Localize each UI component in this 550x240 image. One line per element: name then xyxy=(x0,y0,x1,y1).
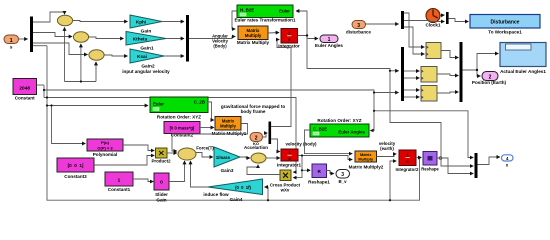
svg-text:input angular velocity: input angular velocity xyxy=(122,69,170,74)
sum E1 xyxy=(57,15,72,25)
svg-text:3: 3 xyxy=(341,172,344,178)
svg-text:Clock1: Clock1 xyxy=(425,23,441,28)
sum1 Force xyxy=(178,148,196,160)
mux bar2 xyxy=(186,15,189,62)
svg-text:Polynomial: Polynomial xyxy=(93,152,118,157)
wire polynomial to product2 in1 xyxy=(123,145,154,151)
svg-text:1/mass: 1/mass xyxy=(216,155,231,160)
wire Y1 to muxR xyxy=(441,51,458,58)
demux bar1 xyxy=(30,17,33,53)
constant 2048 xyxy=(13,79,37,101)
wire Y3 to muxR xyxy=(437,92,458,93)
wire demux 4th output down to left column xyxy=(33,45,47,47)
wire Ksai to mux xyxy=(164,55,184,57)
wire E2 to Ktheta xyxy=(89,37,124,39)
svg-text:Slider: Slider xyxy=(155,192,168,197)
junction dots left column xyxy=(43,89,45,91)
wire disturbance to demux barA xyxy=(366,23,399,25)
svg-text:Multiply: Multiply xyxy=(245,33,262,38)
block Polynomial xyxy=(87,139,123,157)
wire muxC to To Workspace1 xyxy=(449,19,469,22)
wire euler feedback up to green1 right input xyxy=(296,11,307,36)
arrow into green3 right port xyxy=(370,129,374,133)
wire crossproduct out to sum2 bottom xyxy=(247,165,280,175)
svg-text:Integrator1: Integrator1 xyxy=(277,163,301,168)
inport 3 disturbance xyxy=(346,21,371,35)
svg-text:Euler: Euler xyxy=(279,9,290,14)
block Reshape1 xyxy=(308,164,330,185)
svg-text:C_2B: C_2B xyxy=(194,100,205,105)
svg-text:Matrix Multiply: Matrix Multiply xyxy=(237,40,270,45)
svg-text:Constant1: Constant1 xyxy=(108,187,131,192)
slider gain xyxy=(154,173,169,203)
sum E3 xyxy=(89,50,104,60)
wire green2 input feed xyxy=(47,105,148,107)
wire integrator lower input feedback xyxy=(271,40,291,127)
svg-text:Position (Earth): Position (Earth) xyxy=(472,80,507,85)
svg-text:3: 3 xyxy=(357,23,360,29)
sum E2 xyxy=(73,32,88,42)
svg-text:Rotation Order: XYZ: Rotation Order: XYZ xyxy=(157,115,201,120)
wire junction down to outport 2 xyxy=(477,70,480,76)
wire demux to sum E3 xyxy=(33,43,87,55)
svg-text:O(P) = 3: O(P) = 3 xyxy=(97,145,113,150)
wire constant3 to product2 in2 xyxy=(94,156,154,166)
wire inport2 to barD xyxy=(263,133,268,137)
wire left column V1 xyxy=(43,85,45,98)
subsystem Euler rates Transformation1 xyxy=(234,5,295,23)
clock Clock1 xyxy=(425,9,441,28)
junction scope wire xyxy=(476,69,478,71)
svg-text:Euler: Euler xyxy=(153,102,164,107)
block Integrator2 xyxy=(396,150,419,172)
demux barA xyxy=(401,11,404,29)
block Matrix Multiply1 xyxy=(212,117,247,137)
wire bottom loop riser to gain4 input xyxy=(265,187,268,200)
subsystem Rotation Order XYZ right xyxy=(310,118,369,137)
svg-text:Integrator2: Integrator2 xyxy=(396,167,419,172)
svg-text:(0 0 1f): (0 0 1f) xyxy=(235,185,251,190)
wire matrix multiply to integrator xyxy=(268,32,279,35)
svg-text:Product2: Product2 xyxy=(151,159,171,164)
outport 3 B_v xyxy=(336,170,350,185)
wire junction to muxF riser H110.8 xyxy=(374,111,473,158)
mux barR xyxy=(460,42,463,102)
svg-text:Force(T): Force(T) xyxy=(196,146,214,151)
wire polynomial input feed xyxy=(52,106,86,144)
wire green1 H_B2E out to matrix multiply in1 xyxy=(232,11,237,29)
wire constant1 to slider gain xyxy=(133,179,153,182)
block Reshape xyxy=(421,152,439,172)
wire integrator out to Euler Angles port xyxy=(298,36,319,39)
svg-text:H_B2E: H_B2E xyxy=(240,8,254,13)
wire demux to sum E1 top xyxy=(33,12,65,22)
outport 4 x xyxy=(502,155,514,168)
svg-text:1: 1 xyxy=(288,31,291,36)
block Product2 xyxy=(151,148,171,164)
gain Ktheta xyxy=(126,32,166,52)
wire disturbance riser to E2 bottom xyxy=(80,44,82,82)
gain Gain4 induce flow xyxy=(203,179,262,202)
wire barA out3 to switch Y1 in2 xyxy=(404,27,424,54)
wire integrator1 out down to reshape1 and crossproduct xyxy=(293,156,302,178)
svg-text:2048: 2048 xyxy=(19,86,30,92)
annotation Angular Velocity (Body) xyxy=(212,34,228,49)
svg-text:C_B2E: C_B2E xyxy=(313,127,327,132)
wire disturbance riser to E1 bottom xyxy=(64,28,66,82)
svg-text:induce flow: induce flow xyxy=(203,192,229,197)
mux barC xyxy=(446,12,449,24)
wire reshape1 to outport3 xyxy=(327,171,334,174)
svg-text:Ktheta: Ktheta xyxy=(133,37,148,42)
wire MM1 out down and left to sum1 upper input xyxy=(172,124,248,152)
svg-text:Gain: Gain xyxy=(141,29,152,35)
block Matrix Multiply2 xyxy=(349,151,384,170)
wire demux to sum E2 xyxy=(33,33,72,37)
gain Ksai xyxy=(130,49,164,70)
svg-text:velocity (body): velocity (body) xyxy=(286,142,318,147)
wire 2048 to column xyxy=(37,84,45,86)
block Disturbance To Workspace1 xyxy=(470,15,540,35)
wire barB to Y2 in1 xyxy=(404,70,419,72)
svg-text:Reshape: Reshape xyxy=(421,167,439,172)
wire constant2 to MM1 in2 xyxy=(200,127,214,129)
wire gain3 to sum2 xyxy=(240,157,250,158)
constant2 [0 0 mass*g] xyxy=(164,122,200,138)
block Integrator1 xyxy=(277,149,301,168)
subsystem Rotation Order XYZ left xyxy=(150,97,208,120)
wire green2 out to MM1 in1 xyxy=(208,102,214,120)
wire branch to reshape1 xyxy=(302,169,310,171)
wire barA out2 to muxC xyxy=(404,21,444,22)
wire disturbance riser to E3 bottom xyxy=(95,62,97,82)
wire barB to Y2 in2 xyxy=(404,77,419,79)
svg-text:Matrix Multiply1: Matrix Multiply1 xyxy=(212,131,247,136)
gain Gain3 xyxy=(214,147,240,173)
wire branch into mux barB input xyxy=(390,70,399,72)
wire slider gain up to sum1 bottom xyxy=(169,161,185,182)
annotation velocity (earth) xyxy=(379,141,396,151)
svg-text:1: 1 xyxy=(118,178,121,184)
svg-text:Constant3: Constant3 xyxy=(64,174,87,179)
svg-text:Euler Angles: Euler Angles xyxy=(338,130,365,135)
svg-text:Reshape1: Reshape1 xyxy=(308,180,330,185)
svg-text:[0 0 mass*g]: [0 0 mass*g] xyxy=(170,126,195,131)
constant3 [0 0 1] xyxy=(57,158,94,179)
wire barA out1 to switch Y1 in1 xyxy=(404,13,424,47)
svg-text:Gain: Gain xyxy=(156,198,166,203)
annotation gravitational force mapped to body frame xyxy=(221,104,286,114)
svg-text:Actual Euler Angles1: Actual Euler Angles1 xyxy=(500,69,546,74)
svg-text:Matrix Multiply2: Matrix Multiply2 xyxy=(349,165,384,170)
svg-text:Rotation Order: XYZ: Rotation Order: XYZ xyxy=(317,118,361,123)
junction dots risers xyxy=(80,80,82,82)
demux barD xyxy=(269,122,272,145)
svg-text:Gain4: Gain4 xyxy=(230,197,243,202)
svg-text:Disturbance: Disturbance xyxy=(491,20,520,26)
svg-text:disturbance: disturbance xyxy=(346,30,371,35)
switch Y3 xyxy=(421,86,437,102)
svg-text:wXv: wXv xyxy=(280,188,290,193)
inport 2 KO Accelartion xyxy=(244,133,268,151)
svg-text:[0 0 1]: [0 0 1] xyxy=(68,163,84,168)
wire riser collector xyxy=(65,81,97,83)
wire sum1 to gain3 xyxy=(196,153,213,158)
wire E3 to Ksai xyxy=(104,55,127,56)
wire branch to barB second input xyxy=(374,92,399,94)
mux barF xyxy=(475,153,478,178)
wire E1 to Kphi xyxy=(73,21,128,22)
switch Y2 xyxy=(421,67,437,83)
sum2 xyxy=(251,153,266,163)
wire mux2 to matrix multiply in2 xyxy=(189,37,235,39)
inport 1 s xyxy=(4,35,19,50)
wire Y2 to muxR xyxy=(437,74,458,76)
wire integrator2 to reshape xyxy=(416,157,421,159)
wire Ktheta to mux xyxy=(166,38,184,40)
outport 2 Position (Earth) xyxy=(472,72,507,86)
svg-text:Ksai: Ksai xyxy=(137,54,147,59)
wire barB to Y3 in2 xyxy=(404,96,419,98)
svg-text:B_v: B_v xyxy=(338,179,347,184)
svg-text:0: 0 xyxy=(160,180,163,186)
svg-text:(Body): (Body) xyxy=(213,44,227,49)
wire sum2 to integrator1 in2 xyxy=(266,157,280,159)
svg-text:(earth): (earth) xyxy=(380,146,394,151)
svg-text:1: 1 xyxy=(10,38,13,44)
wire Kphi to mux xyxy=(162,21,184,23)
wire integrator1 out to MM2 in2 xyxy=(298,156,352,160)
wire clock to muxC xyxy=(440,14,444,17)
svg-text:Multiply: Multiply xyxy=(220,124,236,129)
outport 1 Euler Angles xyxy=(315,35,343,48)
svg-text:Euler rates Transformation1: Euler rates Transformation1 xyxy=(234,18,295,23)
svg-text:Kphi: Kphi xyxy=(136,20,146,25)
wire muxR to scope and outport2 xyxy=(463,54,499,71)
block Cross Product wXv xyxy=(270,170,301,193)
wire long H2 integrator feedback xyxy=(44,98,296,173)
wire green3 out to MM2 in1 xyxy=(305,130,353,154)
mux barB xyxy=(401,47,404,101)
svg-text:Constant: Constant xyxy=(15,96,35,101)
svg-text:Gain3: Gain3 xyxy=(221,168,234,173)
wire product2 to sum1 xyxy=(167,152,177,154)
wire barD out2 to integrator1 in1 xyxy=(271,139,280,152)
wire euler feedback down and right then down to muxF riser xyxy=(307,36,473,167)
svg-text:body frame: body frame xyxy=(241,109,266,114)
gain Kphi xyxy=(130,15,162,35)
wire bottom loop riser to integrator2 in2 xyxy=(390,161,396,200)
svg-text:Accelartion: Accelartion xyxy=(244,145,268,150)
block Matrix Multiply xyxy=(237,26,270,45)
svg-text:To Workspace1: To Workspace1 xyxy=(488,30,522,35)
svg-text:Constant2: Constant2 xyxy=(171,133,194,138)
scope Actual Euler Angles1 xyxy=(500,43,546,75)
wire MM2 to integrator2 in1 xyxy=(377,154,397,157)
svg-text:s: s xyxy=(10,45,13,50)
wire muxF to outport4 xyxy=(478,157,500,165)
svg-text:Multiply: Multiply xyxy=(358,156,374,161)
wire barB to Y3 in1 xyxy=(404,89,419,91)
constant1 xyxy=(105,172,133,192)
wire left column V2 and bottom loop xyxy=(47,46,420,201)
wire gain4 out left and up to sum1 bottom xyxy=(191,161,209,187)
svg-text:s: s xyxy=(288,37,291,42)
junction integrator output xyxy=(306,34,308,36)
svg-text:Euler Angles: Euler Angles xyxy=(315,43,343,48)
wire long H1 to green3 right input xyxy=(44,90,374,131)
wire reshape out to muxF in3 xyxy=(437,158,473,174)
block Integrator xyxy=(278,29,300,49)
wire input1 to demux xyxy=(19,38,28,40)
switch Y1 xyxy=(426,43,441,59)
svg-text:Gain1: Gain1 xyxy=(140,46,154,52)
